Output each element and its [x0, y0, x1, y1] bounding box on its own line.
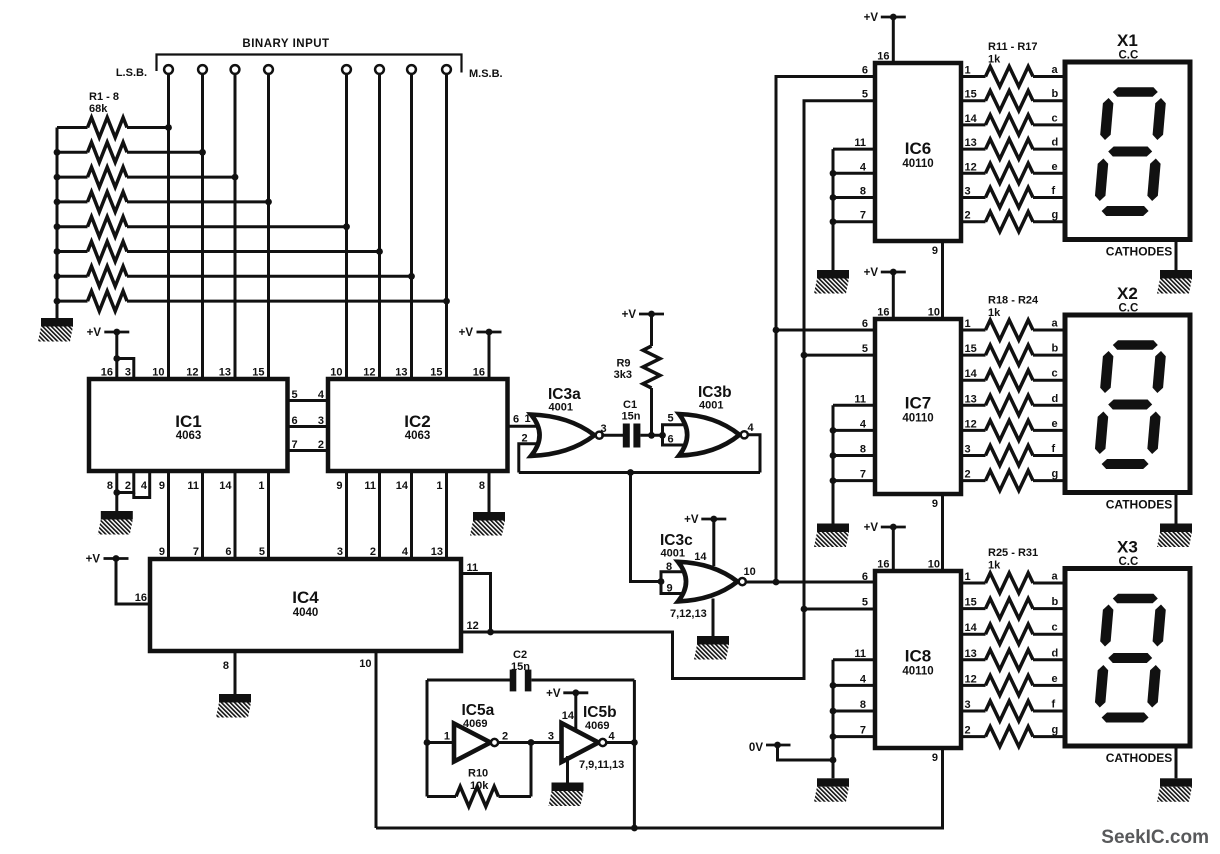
- svg-text:4063: 4063: [176, 430, 202, 442]
- junction oscillator output to bottom wire: [631, 825, 638, 832]
- svg-text:+V: +V: [459, 327, 474, 339]
- svg-text:14: 14: [965, 113, 978, 125]
- svg-text:16: 16: [135, 592, 147, 604]
- wire X3 cathode to ground: [1175, 746, 1178, 778]
- resistor IC6 segment c: [961, 123, 986, 126]
- svg-text:14: 14: [396, 480, 409, 492]
- wire binary column 5: [345, 74, 348, 379]
- svg-text:+V: +V: [87, 327, 102, 339]
- svg-text:16: 16: [877, 51, 889, 63]
- svg-text:11: 11: [854, 137, 866, 149]
- svg-text:1: 1: [965, 571, 971, 583]
- svg-text:6: 6: [225, 546, 231, 558]
- nor-gate IC3b: [679, 414, 740, 456]
- svg-text:15: 15: [965, 343, 977, 355]
- svg-text:8: 8: [107, 480, 113, 492]
- svg-text:R25 - R31: R25 - R31: [988, 547, 1038, 559]
- svg-text:3: 3: [548, 731, 554, 743]
- wire IC3a pin2 from feedback: [519, 444, 546, 473]
- wire IC7 pin5 stub: [804, 354, 875, 357]
- svg-text:7: 7: [860, 210, 866, 222]
- resistor IC7 segment e: [961, 429, 986, 432]
- resistor IC7 segment c: [961, 379, 986, 382]
- seven-segment digit 8: [1093, 340, 1167, 469]
- ground IC3c: [697, 636, 729, 645]
- svg-text:16: 16: [877, 559, 889, 571]
- input terminal 3: [231, 65, 240, 74]
- svg-text:11: 11: [854, 648, 866, 660]
- svg-text:4001: 4001: [661, 548, 685, 560]
- svg-text:5: 5: [292, 389, 298, 401]
- resistor IC6 segment a: [961, 75, 986, 78]
- wire bottom clock line IC4 pin10 to IC8 pin9: [376, 748, 943, 828]
- svg-text:13: 13: [219, 367, 231, 379]
- wire IC7 pins 11/4/8/7 bus: [833, 404, 875, 407]
- svg-text:4040: 4040: [293, 607, 319, 619]
- resistor IC6 segment g: [961, 220, 986, 223]
- svg-text:IC3a: IC3a: [548, 386, 581, 403]
- svg-text:8: 8: [860, 444, 866, 456]
- svg-text:7,12,13: 7,12,13: [670, 608, 707, 620]
- svg-text:f: f: [1052, 443, 1056, 455]
- svg-text:15: 15: [252, 367, 264, 379]
- wire IC6 pins 11/4/8/7 bus: [833, 148, 875, 151]
- svg-text:6: 6: [668, 434, 674, 446]
- power +V IC2: [477, 331, 502, 334]
- power +V R9: [639, 313, 664, 316]
- svg-text:R18 - R24: R18 - R24: [988, 295, 1039, 307]
- power +V IC7: [881, 271, 906, 274]
- ground IC8 bus: [817, 778, 849, 787]
- svg-text:f: f: [1052, 699, 1056, 711]
- svg-text:15: 15: [965, 89, 977, 101]
- ground IC4: [219, 694, 251, 703]
- wire IC8 pin5 stub: [804, 608, 875, 611]
- wire IC1 pin2 bracket: [117, 471, 134, 493]
- svg-text:1: 1: [436, 480, 442, 492]
- wire IC3c input bracket: [661, 572, 684, 594]
- svg-text:8: 8: [860, 699, 866, 711]
- resistor R8: [57, 300, 88, 303]
- resistor IC6 segment e: [961, 172, 986, 175]
- ground X3: [1160, 778, 1192, 787]
- svg-text:7: 7: [860, 469, 866, 481]
- svg-text:1: 1: [965, 318, 971, 330]
- resistor IC8 segment a: [961, 582, 986, 585]
- svg-text:8: 8: [223, 660, 229, 672]
- svg-text:g: g: [1052, 724, 1059, 736]
- svg-text:7: 7: [193, 546, 199, 558]
- power +V IC3c: [701, 518, 726, 521]
- svg-text:IC8: IC8: [905, 647, 931, 666]
- wire IC1 pin6 to IC2 pin3: [288, 425, 329, 428]
- ic IC4 4040 box: [150, 559, 461, 651]
- wire IC8 pins 11/4/8/7 bus: [833, 658, 875, 661]
- svg-text:+V: +V: [864, 12, 879, 24]
- svg-text:IC5b: IC5b: [583, 704, 617, 721]
- svg-text:e: e: [1052, 418, 1058, 430]
- ground IC1: [101, 511, 133, 520]
- svg-text:10: 10: [359, 658, 371, 670]
- svg-text:+V: +V: [622, 309, 637, 321]
- svg-text:g: g: [1052, 209, 1059, 221]
- svg-text:2: 2: [965, 469, 971, 481]
- wire +V to IC2 pin16: [488, 332, 491, 379]
- ground ladder bus: [41, 318, 73, 327]
- junction bus A at IC3c output: [773, 579, 780, 586]
- svg-text:d: d: [1052, 647, 1059, 659]
- wire IC1 bottom pin column 4 to IC4: [267, 471, 270, 559]
- input terminal 8: [442, 65, 451, 74]
- svg-text:4063: 4063: [405, 430, 431, 442]
- svg-text:9: 9: [336, 480, 342, 492]
- wire +V to IC7 pin16: [892, 272, 895, 319]
- resistor IC8 segment g: [961, 735, 986, 738]
- svg-text:IC5a: IC5a: [462, 702, 495, 719]
- junction IC5a input: [424, 739, 431, 746]
- svg-text:1: 1: [258, 480, 264, 492]
- svg-text:2: 2: [370, 546, 376, 558]
- svg-text:9: 9: [932, 752, 938, 764]
- svg-text:b: b: [1052, 343, 1059, 355]
- svg-text:R9: R9: [616, 358, 630, 370]
- svg-text:+V: +V: [684, 514, 699, 526]
- junction bus A at IC7 pin6: [773, 327, 780, 334]
- svg-text:c: c: [1052, 622, 1058, 634]
- wire +V to IC5b pin14: [574, 693, 577, 730]
- svg-text:4: 4: [860, 673, 867, 685]
- svg-text:3: 3: [965, 444, 971, 456]
- ic IC6 40110 box: [875, 63, 961, 241]
- inverter IC5a: [454, 724, 491, 762]
- svg-text:c: c: [1052, 368, 1058, 380]
- wire IC2 bottom pin column 8 to IC4: [445, 471, 448, 559]
- resistor R6: [57, 250, 88, 253]
- svg-text:12: 12: [363, 367, 375, 379]
- svg-text:13: 13: [965, 393, 977, 405]
- svg-text:IC1: IC1: [175, 412, 201, 431]
- input terminal 1: [164, 65, 173, 74]
- power +V IC6: [881, 16, 906, 19]
- svg-text:68k: 68k: [89, 103, 108, 115]
- svg-text:R11 - R17: R11 - R17: [988, 41, 1038, 53]
- svg-text:+V: +V: [86, 554, 101, 566]
- svg-text:X1: X1: [1117, 31, 1138, 50]
- svg-text:11: 11: [364, 480, 376, 492]
- wire X1 cathode to ground: [1175, 240, 1178, 271]
- wire IC5a output to IC5b input: [498, 741, 562, 744]
- svg-text:C1: C1: [623, 399, 637, 411]
- ground X1: [1160, 270, 1192, 279]
- seven-segment digit 8: [1093, 87, 1167, 216]
- svg-text:e: e: [1052, 673, 1058, 685]
- ground IC5b: [552, 783, 584, 792]
- svg-text:7: 7: [292, 439, 298, 451]
- ic IC1 4063 box: [89, 379, 288, 471]
- svg-text:CATHODES: CATHODES: [1106, 245, 1172, 259]
- svg-text:IC6: IC6: [905, 139, 931, 158]
- wire IC7 pin6 stub: [776, 329, 875, 332]
- wire binary column 1: [167, 74, 170, 379]
- svg-text:3: 3: [318, 415, 324, 427]
- wire X2 cathode to ground: [1175, 493, 1178, 524]
- svg-text:7: 7: [860, 725, 866, 737]
- wire IC4 pin12 route to displays pin5 bus: [461, 609, 804, 679]
- svg-text:+V: +V: [864, 522, 879, 534]
- svg-text:2: 2: [318, 439, 324, 451]
- svg-text:X2: X2: [1117, 284, 1138, 303]
- input terminal 7: [407, 65, 416, 74]
- svg-text:d: d: [1052, 137, 1059, 149]
- wire oscillator top feedback: [427, 679, 510, 682]
- svg-text:14: 14: [219, 480, 232, 492]
- svg-text:14: 14: [562, 710, 575, 722]
- input terminal 2: [198, 65, 207, 74]
- resistor R5: [57, 225, 88, 228]
- svg-text:3: 3: [601, 423, 607, 435]
- junction IC4 pin11/pin12: [487, 629, 494, 636]
- wire IC2 bottom pin column 5 to IC4: [345, 471, 348, 559]
- svg-text:0V: 0V: [749, 742, 763, 754]
- resistor IC7 segment f: [961, 454, 986, 457]
- power +V IC4: [104, 557, 129, 560]
- svg-text:12: 12: [965, 161, 977, 173]
- wire binary column 8: [445, 74, 448, 379]
- wire IC1 pin8 to ground: [115, 471, 118, 511]
- wire branch to IC1 pin3: [117, 359, 134, 380]
- power +V IC1: [104, 331, 129, 334]
- wire IC1 pin4 bracket: [134, 471, 150, 498]
- svg-text:1: 1: [444, 731, 450, 743]
- resistor IC6 segment d: [961, 148, 986, 151]
- svg-text:BINARY INPUT: BINARY INPUT: [242, 38, 329, 50]
- wire IC1 bottom pin column 2 to IC4: [201, 471, 204, 559]
- nor-gate IC3c: [678, 562, 738, 602]
- wire R10 right vertical: [530, 743, 533, 797]
- wire IC2 pin6 to IC3a pin1: [508, 425, 547, 428]
- svg-text:IC3b: IC3b: [698, 384, 732, 401]
- wire IC2 pin8 to ground: [488, 471, 491, 512]
- input terminal 6: [375, 65, 384, 74]
- wire IC6 pin9 to IC7 pin10: [941, 241, 944, 319]
- svg-text:9: 9: [159, 546, 165, 558]
- resistor R7: [57, 275, 88, 278]
- svg-text:3: 3: [125, 367, 131, 379]
- svg-text:+V: +V: [864, 267, 879, 279]
- resistor IC8 segment d: [961, 658, 986, 661]
- wire IC4 pin10 down: [375, 651, 378, 828]
- wire +V to IC3c pin14: [712, 519, 715, 566]
- svg-text:IC2: IC2: [404, 412, 430, 431]
- nor-gate IC3a: [531, 415, 595, 456]
- wire IC3a output to C1: [601, 434, 623, 437]
- svg-text:6: 6: [862, 318, 868, 330]
- ic IC2 4063 box: [328, 379, 508, 471]
- wire C2 right to IC5b output bus: [532, 679, 635, 682]
- wire resistor ladder left bus: [56, 128, 59, 319]
- resistor IC7 segment g: [961, 479, 986, 482]
- svg-text:13: 13: [431, 546, 443, 558]
- ic IC7 40110 box: [875, 319, 961, 494]
- svg-text:M.S.B.: M.S.B.: [469, 68, 503, 80]
- wire oscillator output vertical: [633, 680, 636, 828]
- svg-text:5: 5: [862, 343, 868, 355]
- svg-text:12: 12: [965, 418, 977, 430]
- svg-text:a: a: [1052, 318, 1059, 330]
- svg-text:4069: 4069: [585, 720, 609, 732]
- resistor IC7 segment d: [961, 404, 986, 407]
- svg-text:40110: 40110: [902, 158, 933, 170]
- ground IC6 bus: [817, 270, 849, 279]
- wire IC5a input: [427, 741, 454, 744]
- wire IC4 pin8 to ground: [234, 651, 237, 694]
- svg-text:g: g: [1052, 468, 1059, 480]
- svg-text:5: 5: [259, 546, 265, 558]
- svg-text:C2: C2: [513, 649, 527, 661]
- svg-text:11: 11: [854, 393, 866, 405]
- input terminal 4: [264, 65, 273, 74]
- svg-text:15: 15: [965, 597, 977, 609]
- wire IC1 bottom pin column 3 to IC4: [234, 471, 237, 559]
- wire IC1 pin5 to IC2 pin4: [288, 399, 329, 402]
- wire IC3c pins 7,12,13 to ground: [712, 599, 715, 637]
- svg-text:13: 13: [965, 137, 977, 149]
- svg-text:14: 14: [694, 551, 707, 563]
- svg-text:9: 9: [159, 480, 165, 492]
- wire binary column 4: [267, 74, 270, 379]
- resistor R2: [57, 151, 88, 154]
- svg-text:a: a: [1052, 571, 1059, 583]
- svg-text:c: c: [1052, 112, 1058, 124]
- wire bus A IC3c output to IC6/IC7 pin6: [776, 77, 875, 583]
- wire +V to IC4 pin16: [116, 559, 150, 605]
- svg-text:2: 2: [125, 480, 131, 492]
- wire binary column 2: [201, 74, 204, 379]
- junction feedback to IC3c: [627, 469, 634, 476]
- svg-text:12: 12: [467, 620, 479, 632]
- svg-text:16: 16: [101, 367, 113, 379]
- resistor IC8 segment f: [961, 710, 986, 713]
- svg-text:e: e: [1052, 161, 1058, 173]
- wire binary column 7: [410, 74, 413, 379]
- wire IC2 bottom pin column 7 to IC4: [410, 471, 413, 559]
- svg-text:14: 14: [965, 368, 978, 380]
- svg-text:4: 4: [748, 422, 755, 434]
- wire IC3b input bracket: [663, 425, 687, 445]
- svg-text:10: 10: [928, 307, 940, 319]
- binary input bracket: [157, 55, 462, 73]
- power +V IC5b: [563, 691, 588, 694]
- svg-text:d: d: [1052, 393, 1059, 405]
- svg-text:a: a: [1052, 64, 1059, 76]
- wire C1 to IC3b inputs: [641, 434, 663, 437]
- svg-text:R10: R10: [468, 768, 488, 780]
- ground X2: [1160, 524, 1192, 533]
- resistor R3: [57, 176, 88, 179]
- svg-text:3: 3: [337, 546, 343, 558]
- svg-text:10: 10: [928, 559, 940, 571]
- svg-text:14: 14: [965, 622, 978, 634]
- svg-text:10: 10: [152, 367, 164, 379]
- resistor IC6 segment f: [961, 196, 986, 199]
- resistor R9 3k3: [650, 314, 653, 346]
- wire binary column 6: [378, 74, 381, 379]
- svg-text:16: 16: [877, 307, 889, 319]
- svg-text:b: b: [1052, 596, 1059, 608]
- resistor IC8 segment e: [961, 684, 986, 687]
- seven-segment digit 8: [1093, 594, 1167, 723]
- wire +V to IC6 pin16: [892, 17, 895, 63]
- svg-text:5: 5: [862, 597, 868, 609]
- junction +V pin16/pin3: [113, 355, 120, 362]
- svg-text:1: 1: [965, 65, 971, 77]
- svg-text:IC3c: IC3c: [660, 532, 693, 549]
- junction R9/C1 node: [648, 432, 655, 439]
- junction IC5b output: [631, 739, 638, 746]
- wire IC5b ground stub: [566, 756, 569, 783]
- svg-text:4: 4: [318, 389, 325, 401]
- power +V IC8: [881, 526, 906, 529]
- svg-text:16: 16: [473, 367, 485, 379]
- wire IC1 pin7 to IC2 pin2: [288, 449, 329, 452]
- svg-text:8: 8: [860, 186, 866, 198]
- svg-text:11: 11: [187, 480, 199, 492]
- svg-text:13: 13: [395, 367, 407, 379]
- svg-text:SeekIC.com: SeekIC.com: [1101, 827, 1209, 848]
- wire IC2 bottom pin column 6 to IC4: [378, 471, 381, 559]
- svg-text:15: 15: [430, 367, 442, 379]
- resistor IC8 segment c: [961, 633, 986, 636]
- resistor IC7 segment a: [961, 329, 986, 332]
- svg-text:6: 6: [513, 414, 519, 426]
- wire IC3c output to IC8 pin6: [745, 581, 875, 584]
- resistor IC7 segment b: [961, 354, 986, 357]
- svg-text:2: 2: [965, 210, 971, 222]
- resistor R4: [57, 200, 88, 203]
- svg-text:40110: 40110: [902, 413, 933, 425]
- wire IC5b output to bus: [606, 741, 635, 744]
- svg-text:6: 6: [292, 415, 298, 427]
- svg-text:4: 4: [402, 546, 409, 558]
- inverter IC5b: [562, 723, 599, 762]
- resistor IC8 segment b: [961, 607, 986, 610]
- svg-text:15n: 15n: [622, 411, 641, 423]
- svg-text:3: 3: [965, 186, 971, 198]
- svg-text:+V: +V: [546, 688, 561, 700]
- svg-text:8: 8: [479, 480, 485, 492]
- svg-text:9: 9: [667, 583, 673, 595]
- svg-text:40110: 40110: [902, 666, 933, 678]
- wire feedback bottom IC3a/IC3b: [519, 471, 760, 474]
- wire IC4 pin11: [461, 574, 491, 633]
- ground IC2: [473, 512, 505, 521]
- wire 0V to IC8 bus: [778, 745, 834, 760]
- svg-text:X3: X3: [1117, 538, 1138, 557]
- resistor IC6 segment b: [961, 99, 986, 102]
- svg-text:9: 9: [932, 498, 938, 510]
- svg-text:IC4: IC4: [292, 588, 319, 607]
- svg-text:f: f: [1052, 185, 1056, 197]
- svg-text:4: 4: [141, 480, 148, 492]
- wire +V to IC1 pin16: [115, 332, 118, 379]
- svg-text:8: 8: [666, 561, 672, 573]
- svg-text:6: 6: [862, 65, 868, 77]
- svg-text:3k3: 3k3: [614, 369, 632, 381]
- svg-text:CATHODES: CATHODES: [1106, 498, 1172, 512]
- wire IC3b output down to feedback: [747, 435, 760, 473]
- svg-text:2: 2: [502, 731, 508, 743]
- junction 0V at IC8 bus: [830, 757, 837, 764]
